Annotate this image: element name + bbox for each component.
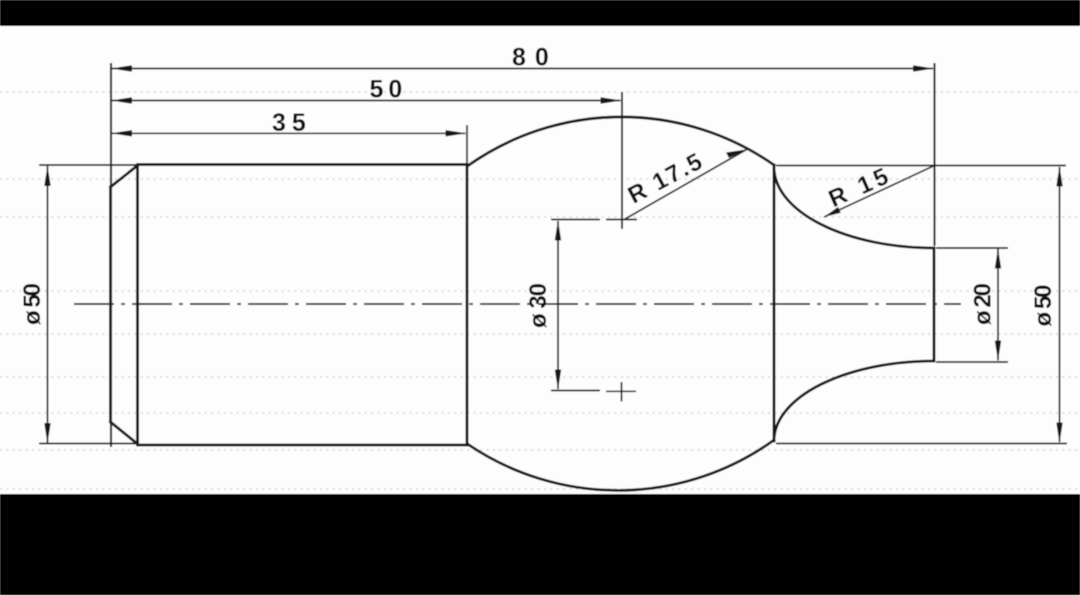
- fillet bottom R15: [774, 361, 934, 441]
- extension line left (x=111): [110, 63, 112, 447]
- dia30 bottom arrow: [555, 370, 561, 391]
- svg-text:ø 20: ø 20: [970, 283, 997, 325]
- cylinder top edge: [138, 163, 468, 166]
- dia30 cross top arm: [606, 219, 637, 221]
- dia50 right top arrow: [1056, 166, 1062, 187]
- svg-text:ø 50: ø 50: [1030, 285, 1057, 327]
- R17.5 leader: [625, 150, 747, 220]
- R17.5 arrow at sphere: [726, 150, 747, 159]
- 50 right arrow: [601, 97, 622, 103]
- right dia50 ext bottom: [776, 443, 1067, 445]
- junction line cylinder-sphere: [466, 165, 469, 446]
- dia30 cross bottom vertical: [621, 382, 623, 402]
- part outline group: [111, 117, 935, 490]
- faint ruled dotted lines: [0, 92, 1080, 489]
- R15 arrow at fillet: [824, 207, 841, 217]
- dia30 top arrow: [555, 220, 561, 241]
- dia20 ext top: [936, 247, 1008, 249]
- dia20 dim line: [997, 249, 999, 361]
- dia20 bottom arrow: [995, 341, 1001, 362]
- 35 left arrow: [111, 130, 132, 136]
- dim line 80: [112, 68, 933, 70]
- dim line 35: [112, 132, 466, 134]
- right end face: [933, 248, 936, 361]
- cylinder bottom edge: [138, 444, 468, 447]
- dia30 dim line: [557, 221, 559, 389]
- extension line 80 (x=934.5): [933, 63, 935, 246]
- dia20 top arrow: [995, 248, 1001, 269]
- sphere top arc: [468, 117, 775, 166]
- sphere bottom arc: [468, 440, 775, 490]
- right dia50 ext top: [776, 165, 1066, 167]
- dia50 left top arrow: [44, 166, 50, 187]
- dia20 ext bottom: [936, 361, 1008, 363]
- 80 right arrow: [913, 65, 934, 71]
- chamfer diagonal top: [111, 166, 138, 188]
- dim line 50: [112, 100, 621, 102]
- svg-text:80: 80: [512, 44, 558, 72]
- left face / chamfer: [109, 187, 112, 422]
- dia50 left bottom arrow: [44, 423, 50, 444]
- left dia50 ext top: [39, 164, 139, 166]
- extension line 50 (x=622): [621, 92, 623, 229]
- junction line sphere-fillet: [773, 165, 776, 441]
- svg-text:35: 35: [272, 109, 312, 137]
- bottom letterbox bar: [0, 494, 1080, 595]
- R15 leader: [824, 165, 936, 217]
- fillet top R15: [774, 167, 934, 248]
- chamfer edge line: [136, 166, 139, 445]
- svg-text:ø 50: ø 50: [19, 283, 46, 325]
- 50 left arrow: [111, 97, 132, 103]
- arrowheads: [44, 65, 1062, 443]
- top letterbox bar: [0, 0, 1080, 26]
- dimension texts: [19, 44, 1057, 329]
- svg-text:50: 50: [370, 76, 408, 104]
- centerline (dash-dot axis): [69, 303, 961, 305]
- dia30 ext top: [551, 219, 600, 221]
- dia50 right bottom arrow: [1056, 423, 1062, 444]
- svg-text:ø 30: ø 30: [525, 283, 552, 328]
- dia30 ext bottom: [551, 390, 600, 392]
- 35 right arrow: [446, 130, 467, 136]
- 80 left arrow: [111, 65, 132, 71]
- left dia50 dim line: [47, 166, 49, 443]
- dimension graphics: [39, 63, 1067, 447]
- right dia50 dim line: [1059, 167, 1061, 442]
- left dia50 ext bottom: [39, 443, 139, 445]
- extension line 35 (x=467 upper): [466, 125, 468, 164]
- chamfer diagonal bottom: [111, 422, 138, 444]
- dia30 cross bottom arm: [606, 390, 636, 392]
